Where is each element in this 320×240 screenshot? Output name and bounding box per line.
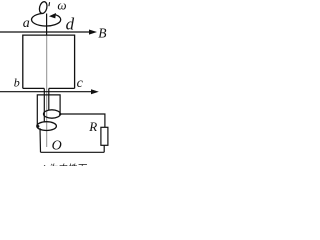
svg-text:c: c (77, 76, 84, 91)
resistor bottom lead (103, 145, 105, 152)
rotation arrow around axis (32, 13, 61, 26)
svg-text:B: B (98, 26, 106, 41)
coil bottom edge left segment (23, 87, 45, 89)
coil lead wire left (to lower slip ring) (43, 88, 45, 122)
slip ring lower (37, 122, 57, 131)
field line 2 (bottom, arrow no label) (0, 91, 91, 93)
field line B (top) (0, 31, 90, 33)
axis line (gray, through coil and rings) (46, 36, 48, 148)
coil bottom edge right segment (49, 87, 75, 89)
brush holder bar (37, 95, 60, 126)
coil rectangle (23, 35, 75, 88)
wire from lower brush down (39, 128, 42, 152)
bottom return wire (41, 151, 105, 153)
svg-text:a: a (23, 16, 30, 31)
shaft (axis upper, black) (46, 14, 48, 36)
slip ring upper (44, 110, 61, 118)
svg-text:b为中性面: b为中性面 (43, 164, 87, 166)
svg-text:O: O (52, 138, 62, 153)
resistor R (101, 127, 108, 145)
brush contact lower (37, 125, 40, 128)
brush contact upper (59, 113, 61, 115)
coil lead wire right (to upper slip ring) (48, 88, 50, 110)
wire to resistor (top) (60, 114, 105, 127)
label O' (axis top) (38, 1, 48, 14)
svg-text:R: R (88, 119, 97, 134)
svg-text:d: d (66, 14, 75, 33)
svg-text:ω: ω (57, 0, 66, 12)
svg-text:b: b (14, 75, 20, 89)
